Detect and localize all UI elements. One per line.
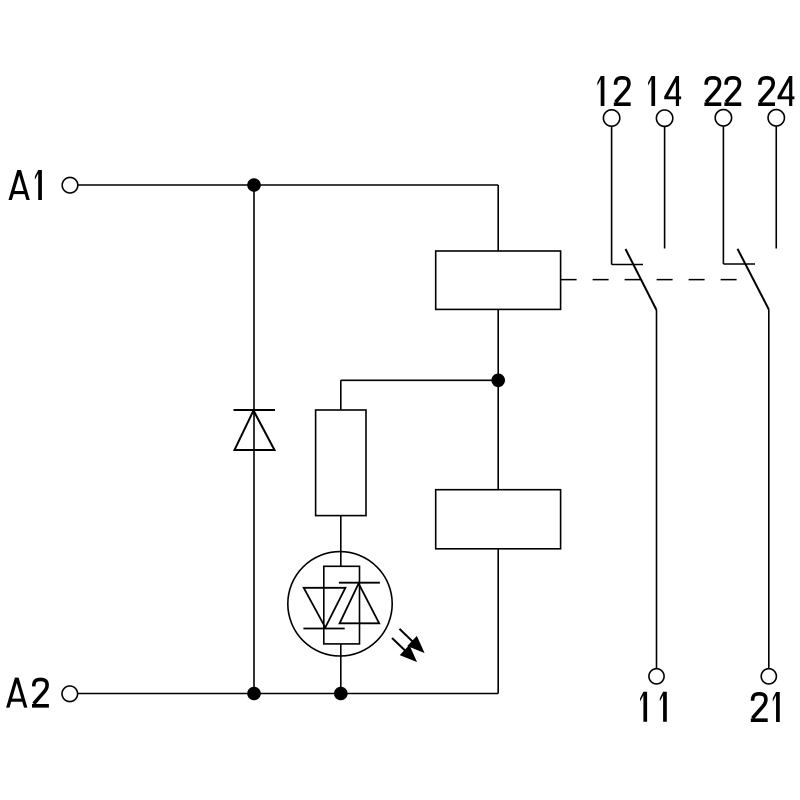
resistor R1 xyxy=(316,410,366,516)
wire mid to resistor xyxy=(340,380,342,410)
node junction A2/diode xyxy=(247,687,261,701)
wire LED to A2 rail xyxy=(340,644,342,694)
node junction A2/LED xyxy=(334,687,348,701)
wire diode branch xyxy=(253,185,255,694)
wire A1 rail xyxy=(78,184,498,186)
terminal 11 xyxy=(649,669,664,684)
terminal 21 xyxy=(761,669,776,684)
terminal A2 xyxy=(62,686,78,702)
label 22 xyxy=(704,78,741,104)
wire contact 22 xyxy=(723,126,755,264)
LED emission arrows xyxy=(392,629,424,661)
node junction A1/diode branch xyxy=(247,178,261,192)
wire block to A2 rail xyxy=(497,549,499,694)
label 14 xyxy=(648,76,681,106)
terminal 24 xyxy=(768,110,784,126)
terminal 22 xyxy=(715,110,731,126)
node junction mid xyxy=(491,374,505,388)
terminal A1 xyxy=(62,177,78,193)
wire mid branch xyxy=(341,379,498,381)
wire A1 to coil xyxy=(497,185,499,251)
wire contact 12 xyxy=(612,126,643,264)
wire resistor to LED xyxy=(340,516,342,567)
contact blade 11-12-14 xyxy=(626,249,657,310)
wire node to block xyxy=(497,380,499,489)
label A1 xyxy=(9,170,42,200)
LED indicator xyxy=(288,552,392,656)
label A2 xyxy=(6,678,49,708)
mechanical link (dashed) xyxy=(561,279,738,281)
module block xyxy=(436,490,561,549)
wire contact 24 xyxy=(775,126,777,249)
wire A2 rail xyxy=(78,693,498,695)
label 11 xyxy=(640,692,667,722)
diode V1 xyxy=(234,410,276,450)
wire contact 14 xyxy=(664,126,666,248)
wire coil to node xyxy=(497,309,499,380)
wire common 11 xyxy=(656,310,658,669)
label 21 xyxy=(751,692,780,722)
relay coil K1 xyxy=(436,251,561,309)
terminal 12 xyxy=(603,110,619,126)
terminal 14 xyxy=(656,110,672,126)
contact blade 21-22-24 xyxy=(738,249,769,310)
label 24 xyxy=(758,76,794,106)
wire common 21 xyxy=(768,309,770,668)
label 12 xyxy=(597,76,630,106)
